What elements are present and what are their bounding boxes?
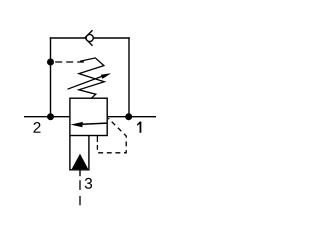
port 3 dashed drain line: [79, 180, 81, 205]
pilot line (dashed) from upper junction to spring: [55, 61, 84, 63]
node: junction dot on main line right: [125, 113, 132, 120]
internal flow arrow shaft: [82, 123, 107, 124]
valve body U1 rectangle: [70, 98, 107, 135]
adjustment arrow shaft: [68, 76, 103, 89]
label port 1: [137, 121, 141, 132]
pilot dashed route to port 1: [97, 118, 126, 153]
wire: top horizontal right segment: [93, 37, 129, 39]
port 3 solid stub: [79, 170, 81, 176]
check valve V1 seat: [85, 30, 93, 46]
node: junction dot upper left: [47, 59, 54, 66]
node: junction dot on main line left: [47, 113, 54, 120]
adjustment arrow head: [101, 73, 112, 79]
check valve V1 ball: [86, 34, 93, 41]
wire: left vertical branch: [50, 37, 52, 116]
pilot stub below body (solid part): [96, 136, 98, 143]
wire: right vertical branch: [128, 37, 130, 116]
wire: main horizontal line port 1 side: [107, 116, 157, 118]
spring (adjustable) zigzag: [79, 58, 104, 98]
lower stem box: [70, 136, 89, 170]
wire: top horizontal left segment: [50, 37, 85, 39]
label port 3: [85, 178, 92, 189]
internal flow arrow head: [71, 122, 83, 127]
wire: main horizontal line port 2 side: [24, 116, 71, 118]
drain triangle (filled): [72, 154, 89, 170]
label port 2: [33, 122, 40, 133]
